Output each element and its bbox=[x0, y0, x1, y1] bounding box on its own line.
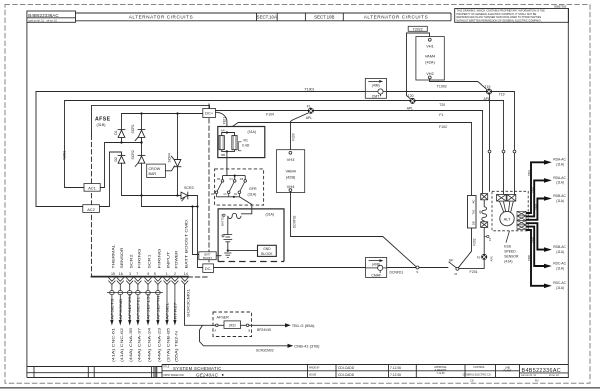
svg-text:B4B522336AC: B4B522336AC bbox=[522, 368, 562, 374]
wire SCR3 output down to DC- bbox=[188, 196, 203, 268]
connector pin T19 bbox=[507, 194, 516, 201]
terminal box AC1 bbox=[84, 184, 100, 192]
svg-text:(55A) TB2-N: (55A) TB2-N bbox=[174, 330, 178, 362]
svg-text:(31B): (31B) bbox=[97, 123, 106, 127]
drawing frame right line bbox=[567, 9, 569, 378]
svg-text:T20: T20 bbox=[408, 94, 414, 98]
svg-text:DC-: DC- bbox=[205, 267, 212, 271]
diode D2 bbox=[118, 154, 125, 156]
wire SCR3CM02 to CNB-41 bbox=[288, 344, 294, 348]
svg-text:FIRING: FIRING bbox=[158, 248, 162, 269]
down arrows to connector labels bbox=[110, 320, 176, 326]
svg-text:CNB-41 (37B): CNB-41 (37B) bbox=[294, 344, 320, 349]
svg-text:POWER: POWER bbox=[175, 250, 179, 269]
svg-text:RDA-AC: RDA-AC bbox=[553, 158, 566, 162]
svg-text:sh no. 10: sh no. 10 bbox=[549, 374, 560, 377]
svg-text:F103: F103 bbox=[292, 133, 296, 140]
wire F2 up to field bbox=[483, 227, 485, 254]
node batt boost tap bbox=[191, 205, 193, 207]
wire F1 vertical drop bbox=[482, 111, 484, 194]
thyristor SCR2 bbox=[138, 154, 145, 156]
field winding AF bbox=[483, 200, 485, 207]
svg-text:RDC-AC: RDC-AC bbox=[553, 261, 566, 265]
svg-text:FIRING: FIRING bbox=[138, 248, 142, 269]
svg-text:AFSEFTH: AFSEFTH bbox=[156, 295, 160, 320]
svg-text:F1: F1 bbox=[307, 104, 311, 108]
battery simulator box (31A) bbox=[218, 209, 284, 262]
svg-text:CONTROL: CONTROL bbox=[473, 366, 485, 369]
svg-text:7.12.06: 7.12.06 bbox=[390, 366, 401, 370]
wires joining resistors bbox=[222, 133, 227, 136]
wire T2022 drop to T20 bus bbox=[407, 33, 430, 99]
wire GFR output bus to BATTSIM bbox=[217, 197, 252, 214]
svg-text:BAR: BAR bbox=[149, 172, 157, 176]
wire net labels (rotated) bbox=[110, 289, 190, 320]
svg-text:T1901: T1901 bbox=[305, 87, 315, 91]
svg-text:SCR1: SCR1 bbox=[148, 254, 152, 268]
wire F102 with diagonal feed from AA bbox=[238, 122, 471, 124]
svg-text:SECT.10A: SECT.10A bbox=[257, 15, 277, 20]
AFSE pin row: chevrons, numbers, wires bbox=[107, 278, 188, 321]
resistor element 1 bbox=[219, 136, 224, 150]
phase bus wires (thick) bbox=[526, 162, 545, 285]
terminal box BATT BOOST bbox=[199, 252, 216, 260]
svg-text:F2: F2 bbox=[488, 237, 492, 241]
wire to GND BLOCK bbox=[228, 250, 258, 252]
svg-text:AFSETS: AFSETS bbox=[110, 297, 114, 319]
junction T19 APL bbox=[486, 89, 492, 95]
AFSE module dashed boundary bbox=[91, 106, 93, 135]
svg-text:BP24V45: BP24V45 bbox=[257, 328, 271, 332]
svg-text:D1: D1 bbox=[114, 130, 118, 135]
GND BLOCK box bbox=[258, 245, 277, 256]
svg-text:AC: AC bbox=[471, 200, 475, 204]
svg-text:(44A) CNA-37: (44A) CNA-37 bbox=[137, 328, 141, 362]
svg-text:SCR1: SCR1 bbox=[131, 124, 135, 133]
wire batt boost feed bbox=[193, 207, 199, 255]
pin 7 bbox=[134, 278, 141, 282]
phase wire net labels bbox=[527, 170, 537, 261]
svg-text:GE240AC: GE240AC bbox=[196, 372, 219, 377]
node SCR3-SCR2 bbox=[140, 194, 142, 196]
svg-text:PLANT: PLANT bbox=[504, 369, 512, 372]
header band bbox=[76, 13, 452, 21]
wire F202 from connector box to M bbox=[458, 228, 471, 268]
svg-text:AC2: AC2 bbox=[87, 207, 95, 212]
svg-text:(11A): (11A) bbox=[556, 266, 564, 270]
svg-text:T803: T803 bbox=[534, 204, 538, 210]
wire DCNF02 bbox=[291, 192, 417, 268]
terminal F2 stub bbox=[484, 236, 486, 238]
svg-text:AFSEF2S1: AFSEF2S1 bbox=[128, 293, 132, 319]
svg-text:SCR3CM01: SCR3CM01 bbox=[186, 289, 190, 317]
svg-text:APL: APL bbox=[407, 107, 414, 111]
wire DCNFD1 from DC- bbox=[214, 267, 417, 269]
thyristor SCR4 bbox=[174, 160, 181, 167]
node SCR4 anode bbox=[176, 112, 178, 114]
svg-text:14: 14 bbox=[184, 272, 188, 276]
svg-text:THERMAL: THERMAL bbox=[111, 244, 115, 268]
terminal A bbox=[216, 324, 219, 327]
svg-text:APL: APL bbox=[489, 255, 493, 261]
node S bbox=[416, 266, 419, 269]
pin 3 bbox=[126, 278, 133, 282]
svg-text:AFSEL: AFSEL bbox=[166, 302, 170, 319]
wire return loop to SCR2 cathode bbox=[142, 206, 198, 208]
svg-text:SCR4: SCR4 bbox=[167, 153, 171, 162]
svg-text:T2001: T2001 bbox=[63, 150, 67, 160]
svg-text:3: 3 bbox=[129, 272, 131, 276]
wire BB to GFR contacts bbox=[223, 151, 246, 179]
svg-text:D2: D2 bbox=[114, 157, 118, 162]
wire D1 anode drop bbox=[121, 114, 123, 130]
meter CMAF (40B) bbox=[366, 257, 387, 277]
svg-text:TITLE: TITLE bbox=[163, 366, 170, 368]
GFR contact 2 bbox=[227, 180, 236, 197]
alternator ALT bbox=[500, 211, 514, 225]
svg-text:9: 9 bbox=[147, 272, 149, 276]
wire BP24V45 to TB1-G bbox=[249, 324, 285, 326]
wire branch to SCR3CM02 bbox=[200, 325, 288, 346]
thyristor SCR3 bbox=[181, 192, 188, 199]
svg-text:DC+: DC+ bbox=[205, 111, 214, 116]
svg-text:BLOCK: BLOCK bbox=[261, 252, 273, 256]
svg-text:SECT.10B: SECT.10B bbox=[314, 15, 334, 20]
svg-text:GENERAL ELECTRIC CO.: GENERAL ELECTRIC CO. bbox=[463, 373, 492, 376]
wire T19 to corner bbox=[492, 91, 514, 93]
GFR contact 1 bbox=[215, 180, 224, 197]
svg-text:T19: T19 bbox=[485, 85, 491, 89]
svg-text:DCNF02: DCNF02 bbox=[293, 215, 297, 228]
svg-text:cont on sh. 11: cont on sh. 11 bbox=[521, 374, 537, 377]
wire D2 cathode to DC- bus bbox=[121, 163, 123, 195]
pin 9 bbox=[145, 278, 152, 282]
wire phase A1 bbox=[526, 162, 545, 213]
svg-text:(11A): (11A) bbox=[556, 250, 564, 254]
title block bbox=[27, 365, 568, 378]
wire F201 bbox=[459, 260, 484, 269]
svg-text:GND: GND bbox=[263, 247, 271, 251]
terminal box DC+ bbox=[203, 109, 216, 118]
svg-text:F104: F104 bbox=[266, 113, 274, 117]
svg-text:SYSTEM SCHEMATIC: SYSTEM SCHEMATIC bbox=[173, 366, 222, 371]
svg-text:AF: AF bbox=[478, 210, 482, 214]
svg-text:ALTERNATOR CIRCUITS: ALTERNATOR CIRCUITS bbox=[129, 15, 194, 20]
svg-text:F1: F1 bbox=[439, 113, 443, 117]
svg-text:AA: AA bbox=[221, 128, 225, 132]
svg-text:AFSER: AFSER bbox=[217, 316, 230, 320]
svg-text:RDC-AC: RDC-AC bbox=[553, 281, 566, 285]
AFSE module top edge into DC+ bbox=[92, 106, 210, 109]
wire SCR1 drop bbox=[141, 114, 143, 130]
svg-text:(31A): (31A) bbox=[248, 130, 257, 134]
voltage module VAM4 (42A) bbox=[416, 37, 444, 80]
svg-text:AFSGND: AFSGND bbox=[119, 298, 123, 320]
junction T20 APL bbox=[410, 98, 416, 104]
wire phase C1 bbox=[526, 227, 545, 266]
svg-text:7.12.06: 7.12.06 bbox=[390, 373, 401, 377]
svg-text:CDI-CADD: CDI-CADD bbox=[338, 366, 355, 370]
connector pin T20 bbox=[497, 194, 507, 201]
connector box AC/TH1/DB bbox=[468, 196, 477, 229]
label box T2022 bbox=[408, 26, 427, 31]
svg-text:(42B): (42B) bbox=[286, 174, 296, 179]
svg-text:(44A) CNA-35: (44A) CNA-35 bbox=[129, 328, 133, 362]
node BB bbox=[226, 150, 228, 152]
alternator dashed boundary ESS bbox=[492, 191, 528, 231]
wire T1901 vertical drop from T19 junction bbox=[489, 95, 491, 151]
svg-text:(31A): (31A) bbox=[266, 212, 275, 216]
resistor module R1 box (31A) bbox=[218, 127, 265, 158]
svg-text:T1902: T1902 bbox=[437, 85, 447, 89]
junction F2 APL bbox=[481, 254, 487, 260]
relay GFR dashed box bbox=[215, 169, 264, 205]
destination connector labels (rotated) bbox=[111, 328, 178, 362]
crowbar box bbox=[147, 164, 166, 177]
svg-text:1: 1 bbox=[166, 272, 168, 276]
wire coil to battery bbox=[227, 217, 229, 234]
svg-text:CDI-CADD: CDI-CADD bbox=[338, 373, 355, 377]
pin 16 bbox=[117, 278, 124, 282]
svg-text:F101: F101 bbox=[223, 117, 227, 124]
connector ovals pair 3-7 bbox=[127, 291, 132, 295]
wire F104/F1 bus bbox=[216, 110, 483, 112]
wire F102 vertical drop bbox=[471, 123, 473, 196]
terminal B bbox=[246, 324, 249, 327]
svg-text:T805: T805 bbox=[530, 237, 534, 243]
svg-text:RDB-AC: RDB-AC bbox=[553, 245, 566, 249]
bridge top bus to DC+ bbox=[122, 113, 203, 115]
svg-text:cont on sh. 11 sh no. 10: cont on sh. 11 sh no. 10 bbox=[28, 19, 57, 22]
svg-text:(31A): (31A) bbox=[248, 192, 257, 196]
svg-text:(11A): (11A) bbox=[556, 286, 564, 290]
svg-text:(44A) CNA-24: (44A) CNA-24 bbox=[148, 328, 152, 362]
wire SCR4 drop bbox=[177, 114, 179, 160]
arrows to RD leads bbox=[544, 160, 552, 288]
GFR contact 3 bbox=[238, 180, 246, 197]
svg-text:SCR3CM02: SCR3CM02 bbox=[256, 349, 274, 353]
header title box B4B522336AC bbox=[27, 11, 76, 22]
meter CMT (40B) bbox=[365, 78, 386, 98]
svg-text:T20: T20 bbox=[439, 103, 445, 107]
thyristor SCR1 bbox=[138, 129, 145, 131]
svg-text:(41A) CNC-62: (41A) CNC-62 bbox=[120, 328, 124, 362]
svg-text:BB: BB bbox=[221, 153, 225, 157]
svg-text:APL: APL bbox=[484, 97, 491, 101]
node battery-gnd bbox=[227, 249, 229, 251]
svg-text:APL: APL bbox=[306, 116, 313, 120]
connector ovals pair 9-5 bbox=[146, 291, 151, 295]
pin 14 bbox=[181, 278, 188, 282]
svg-text:(44A) CNA-23: (44A) CNA-23 bbox=[157, 328, 161, 362]
svg-text:RDB-AC: RDB-AC bbox=[553, 194, 566, 198]
svg-text:VAM4: VAM4 bbox=[285, 168, 296, 173]
AFSE module bottom edge bbox=[92, 276, 189, 278]
terminal box DC- bbox=[203, 264, 214, 273]
svg-text:M: M bbox=[455, 272, 458, 276]
connector ovals pair 15-16 bbox=[110, 291, 115, 295]
svg-text:TB1-G (55A): TB1-G (55A) bbox=[292, 323, 315, 328]
ESS pointer and label bbox=[506, 231, 510, 243]
node SCR4-SCR3 bbox=[176, 194, 178, 196]
svg-text:VH2: VH2 bbox=[426, 71, 434, 76]
svg-text:CMT: CMT bbox=[372, 94, 380, 98]
svg-text:SENSOR: SENSOR bbox=[504, 254, 519, 258]
wire F103 branch from F1 APL bbox=[291, 113, 309, 151]
wire SCR4 to SCR3 line bbox=[177, 167, 179, 196]
svg-text:SPEED: SPEED bbox=[504, 249, 516, 253]
svg-text:ALT: ALT bbox=[504, 216, 511, 221]
pin 15 bbox=[108, 278, 115, 282]
node AA bbox=[226, 131, 228, 133]
svg-text:MADE BY: MADE BY bbox=[309, 366, 320, 369]
pin 2 bbox=[171, 278, 178, 282]
svg-text:WITHOUT WRITTEN PERMISSION OF: WITHOUT WRITTEN PERMISSION OF GENERAL EL… bbox=[457, 19, 542, 23]
terminal circles on T drops bbox=[488, 150, 491, 153]
pin numbers bbox=[111, 272, 188, 276]
svg-text:SCR2: SCR2 bbox=[129, 254, 133, 268]
resistor module AFSER dashed box bbox=[213, 312, 252, 337]
resistor 2K bbox=[224, 321, 241, 329]
junction F1 APL bbox=[306, 104, 314, 120]
wire BATT BOOST into battsim bbox=[216, 255, 221, 257]
node SCR1-SCR2 midpoint bbox=[140, 141, 142, 143]
svg-text:36B57395: 36B57395 bbox=[554, 5, 567, 9]
svg-text:(11A): (11A) bbox=[556, 199, 564, 203]
svg-text:F201: F201 bbox=[470, 270, 478, 274]
node inter-row bbox=[140, 141, 142, 143]
diode D1 bbox=[118, 129, 125, 131]
svg-text:RU: RU bbox=[535, 380, 539, 383]
proprietary notice box bbox=[455, 9, 569, 23]
node return loop bbox=[196, 205, 198, 207]
wire T2001 loop from AC1 up and right (T20 bus) bbox=[65, 101, 504, 188]
svg-text:(41A) CNC-61: (41A) CNC-61 bbox=[111, 328, 115, 362]
module pin-function labels (rotated) bbox=[111, 218, 188, 268]
svg-text:SCR3: SCR3 bbox=[184, 186, 194, 190]
wire phase A2 bbox=[526, 180, 545, 216]
node D1 on AC1 bus bbox=[120, 141, 122, 143]
svg-text:RTR27: RTR27 bbox=[173, 302, 177, 319]
svg-text:TH1: TH1 bbox=[471, 209, 475, 215]
svg-text:GF: GF bbox=[449, 258, 454, 262]
svg-text:C2I: C2I bbox=[470, 380, 474, 383]
svg-text:SCR2: SCR2 bbox=[131, 150, 135, 159]
svg-text:7.12.06: 7.12.06 bbox=[437, 372, 446, 375]
svg-text:T2022: T2022 bbox=[413, 27, 423, 31]
wire F101 from DC+ to R1 bbox=[216, 112, 227, 132]
connector pin F2 bbox=[481, 194, 488, 200]
svg-text:F202: F202 bbox=[473, 238, 477, 245]
wires pins to ALT bbox=[499, 201, 513, 212]
svg-text:R1: R1 bbox=[244, 139, 248, 143]
svg-text:BATT BOOST CMD.: BATT BOOST CMD. bbox=[184, 218, 188, 268]
pin 5 bbox=[154, 278, 161, 282]
stator connector stack bbox=[517, 211, 526, 229]
resistor element 2 bbox=[232, 136, 237, 150]
wire T1901 long horizontal looping from AC2 bbox=[36, 92, 486, 207]
svg-text:(41A): (41A) bbox=[504, 259, 512, 263]
terminal box AC2 bbox=[83, 205, 100, 213]
wire T19 vertical drop bbox=[514, 92, 516, 151]
wire phase B2 bbox=[526, 223, 545, 249]
svg-text:RDA-AC: RDA-AC bbox=[553, 176, 566, 180]
svg-text:(11A): (11A) bbox=[556, 181, 564, 185]
svg-text:S: S bbox=[416, 270, 418, 274]
svg-text:2: 2 bbox=[174, 272, 176, 276]
svg-text:T802: T802 bbox=[530, 187, 534, 193]
inner frame vertical bbox=[26, 22, 28, 366]
svg-text:2KΩ: 2KΩ bbox=[229, 324, 236, 328]
svg-text:AC1: AC1 bbox=[88, 186, 96, 191]
svg-text:VH3: VH3 bbox=[287, 157, 295, 162]
coil squiggle bbox=[228, 213, 241, 218]
svg-text:CMAF: CMAF bbox=[371, 273, 381, 277]
terminal circle bbox=[223, 214, 225, 216]
svg-text:CROW: CROW bbox=[149, 167, 161, 171]
svg-text:FIRST MADE FOR: FIRST MADE FOR bbox=[164, 374, 184, 377]
inter-row bus node bbox=[121, 137, 123, 142]
svg-text:T801: T801 bbox=[527, 170, 531, 176]
svg-text:T806: T806 bbox=[527, 255, 531, 261]
wire crowbar gate to SCR4 bbox=[165, 166, 174, 171]
svg-text:(40B): (40B) bbox=[372, 83, 380, 87]
svg-text:AFSEF1S1: AFSEF1S1 bbox=[147, 293, 151, 319]
svg-text:ALTERNATOR CIRCUITS: ALTERNATOR CIRCUITS bbox=[364, 15, 429, 20]
svg-text:16: 16 bbox=[119, 272, 123, 276]
svg-text:F102: F102 bbox=[439, 125, 447, 129]
svg-text:AFSE: AFSE bbox=[95, 117, 111, 123]
svg-text:7: 7 bbox=[136, 272, 138, 276]
svg-text:5: 5 bbox=[154, 272, 156, 276]
connector pin F1 bbox=[481, 221, 488, 228]
switch GF bbox=[419, 267, 448, 269]
voltage module VAM4 (42B) bbox=[277, 150, 305, 193]
node SCR1 anode bbox=[140, 112, 142, 114]
pointer bracket bbox=[238, 142, 241, 151]
wire SCR2 cathode to DC- bus bbox=[141, 163, 143, 206]
wire phase B1 bbox=[526, 199, 545, 220]
svg-text:AFSEF2L: AFSEF2L bbox=[136, 296, 140, 319]
svg-text:VH1: VH1 bbox=[426, 43, 434, 48]
pin 1 bbox=[164, 278, 171, 282]
svg-text:(42A): (42A) bbox=[425, 59, 435, 64]
svg-text:ESS: ESS bbox=[504, 244, 512, 248]
wire T20 vertical drop bbox=[503, 101, 505, 151]
svg-text:(37A) CNB-85: (37A) CNB-85 bbox=[167, 328, 171, 362]
wire T1902 bbox=[430, 79, 488, 90]
svg-text:0.4Ω: 0.4Ω bbox=[242, 144, 250, 148]
svg-text:SENSOR: SENSOR bbox=[120, 247, 124, 269]
svg-text:GFR: GFR bbox=[249, 187, 257, 191]
svg-text:DB: DB bbox=[471, 221, 475, 225]
wire SCR3 line bbox=[122, 195, 182, 197]
svg-text:T19: T19 bbox=[499, 93, 505, 97]
lead labels bbox=[553, 158, 566, 290]
svg-text:VAM4: VAM4 bbox=[425, 53, 436, 58]
svg-text:DCNFD1: DCNFD1 bbox=[390, 271, 404, 275]
ground symbol bbox=[224, 253, 231, 257]
svg-text:BOOST: BOOST bbox=[203, 257, 212, 260]
svg-text:INPUT: INPUT bbox=[167, 252, 171, 269]
junction dots bbox=[120, 112, 198, 207]
svg-text:B4B522336AC: B4B522336AC bbox=[28, 13, 59, 18]
svg-text:F2: F2 bbox=[477, 256, 481, 260]
scanner bottom edge bbox=[0, 387, 600, 389]
svg-text:(11A): (11A) bbox=[556, 163, 564, 167]
battery symbol bbox=[223, 235, 232, 251]
svg-text:15: 15 bbox=[111, 272, 115, 276]
